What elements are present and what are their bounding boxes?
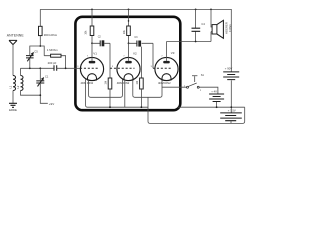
resistor 300 kOhm [39, 9, 41, 46]
resistor R4 (V3 grid leak) [140, 47, 142, 78]
svg-text:+9V: +9V [49, 102, 54, 106]
node C5 bottom [29, 67, 31, 69]
svg-text:1M: 1M [136, 81, 139, 84]
svg-text:ANTENNE: ANTENNE [7, 34, 25, 38]
node L2/C1 [39, 94, 41, 96]
wire B+ rail [40, 9, 231, 71]
svg-text:C1: C1 [45, 74, 49, 78]
wire L2 bottom to 9V line [21, 91, 41, 96]
svg-text:V1: V1 [93, 52, 97, 56]
wire V1 filament left to rail [86, 79, 148, 107]
capacitor C2 (coupling) [92, 42, 110, 44]
wire filament loop V2-V3 [133, 79, 162, 97]
switch S1 [162, 87, 218, 94]
wire C1 bottom to +9V [40, 83, 48, 103]
svg-text:200 pF: 200 pF [48, 61, 57, 65]
svg-text:C5: C5 [34, 49, 38, 53]
tube V1 [80, 57, 103, 80]
tube V2 [117, 57, 140, 80]
node rail C4 [195, 9, 197, 11]
node 1M right [65, 67, 67, 69]
node rail speaker [210, 9, 212, 11]
tube V3 [155, 57, 178, 80]
svg-text:300 kOhm: 300 kOhm [44, 33, 58, 37]
capacitor 200 pF (series grid cap) [54, 65, 57, 71]
battery 4V [209, 94, 224, 99]
wire L1 to ground [12, 91, 14, 104]
resistor R2 (V2 plate) [128, 9, 130, 43]
battery 7.5V [220, 113, 242, 118]
wire C5 bottom [29, 58, 31, 68]
node leak1 on filament rail [109, 106, 111, 108]
svg-text:4DM DIN2: 4DM DIN2 [81, 81, 94, 85]
node C4 bottom [195, 41, 197, 43]
wire bottom return rail [148, 97, 245, 123]
svg-text:+ 4V: + 4V [211, 90, 217, 94]
wire grid line W2 [21, 67, 55, 69]
resistor R3 (V2 grid leak) [108, 78, 112, 89]
battery 90V [223, 72, 239, 77]
ground ERDE [9, 103, 17, 107]
wire V2 grid riser [109, 43, 111, 78]
svg-text:V2: V2 [133, 52, 137, 56]
node 4V / mid rail [216, 106, 218, 108]
wire 200pF to V1 grid [57, 67, 80, 69]
resistor 1 MOhm [44, 56, 65, 69]
wire C5 top / W1 [30, 46, 44, 56]
antenna symbol [9, 40, 17, 44]
wire C1 top [39, 68, 41, 81]
wire L2 top to grid line [20, 68, 22, 75]
node rail R2 [128, 9, 130, 11]
svg-text:ERDE: ERDE [9, 108, 17, 112]
svg-text:4DM DIN2: 4DM DIN2 [158, 81, 171, 85]
node rail R1 [91, 9, 93, 11]
wire filament loop V1-V2 [89, 79, 123, 97]
svg-text:4DM DIN2: 4DM DIN2 [117, 81, 130, 85]
node V2 anode [128, 42, 130, 44]
node C1 top [39, 67, 41, 69]
wire V3 grid riser [152, 43, 154, 68]
svg-text:4 Ohm: 4 Ohm [228, 24, 232, 32]
capacitor C5 (variable) [26, 56, 34, 58]
node 90V / mid rail [230, 106, 232, 108]
svg-text:1M: 1M [105, 81, 108, 84]
node leak2 on filament rail [141, 106, 143, 108]
svg-text:+ 90V: + 90V [225, 66, 233, 70]
node below box edge [128, 20, 130, 22]
node V1 anode [91, 42, 93, 44]
wire V2 filament mid to rail [124, 80, 126, 107]
capacitor C1 (variable) [36, 81, 44, 83]
coil L1 [13, 76, 16, 91]
svg-text:S1: S1 [201, 73, 205, 77]
svg-text:C4: C4 [201, 22, 205, 26]
wire 4V bottom [216, 102, 218, 107]
wire antenna to L1 [12, 45, 14, 76]
capacitor C3 (coupling) [129, 42, 154, 44]
wire 7.5V bottom to bottom rail [230, 121, 232, 124]
wire V3 anode to output [167, 41, 212, 43]
speaker HOERER [211, 9, 212, 41]
capacitor C4 [195, 9, 197, 41]
svg-text:V3: V3 [171, 51, 175, 55]
chassis box (thick rounded outline) [75, 17, 180, 110]
coil L2 [21, 76, 24, 91]
resistor R1 (V1 plate) [91, 9, 93, 43]
wire 90V bottom to mid rail and 7.5V [230, 80, 232, 113]
svg-text:+ 7.5V: + 7.5V [228, 109, 236, 113]
svg-text:1 MOhm: 1 MOhm [47, 48, 58, 52]
node 300k / W1 [39, 45, 41, 47]
wire mid rail (battery return) [178, 106, 245, 108]
